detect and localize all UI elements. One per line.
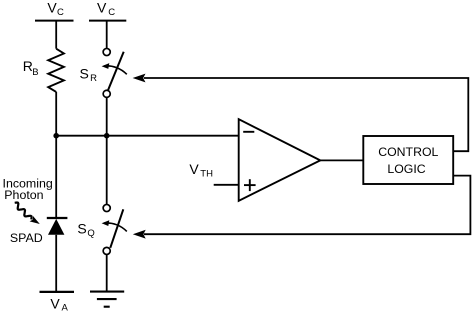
svg-text:Q: Q xyxy=(87,228,94,239)
svg-text:R: R xyxy=(23,58,33,74)
svg-text:V: V xyxy=(97,0,107,16)
svg-text:V: V xyxy=(189,161,199,177)
svg-text:S: S xyxy=(80,65,89,81)
svg-text:S: S xyxy=(77,220,86,236)
svg-text:V: V xyxy=(50,295,60,311)
svg-text:R: R xyxy=(90,73,97,84)
svg-text:Photon: Photon xyxy=(4,188,43,202)
svg-text:B: B xyxy=(32,67,38,78)
svg-text:LOGIC: LOGIC xyxy=(387,162,425,176)
svg-text:CONTROL: CONTROL xyxy=(378,145,438,159)
svg-text:V: V xyxy=(47,0,57,16)
svg-text:TH: TH xyxy=(200,168,213,179)
svg-text:C: C xyxy=(108,7,115,18)
svg-text:SPAD: SPAD xyxy=(10,231,43,245)
svg-text:C: C xyxy=(57,7,64,18)
svg-text:A: A xyxy=(62,302,69,312)
